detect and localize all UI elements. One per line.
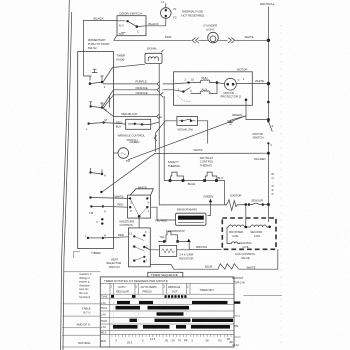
wire neutral vertical bus bbox=[267, 7, 269, 205]
hi-limit thermostat zigzags bbox=[218, 264, 239, 270]
wire moisture to heat selector bbox=[138, 218, 140, 228]
wire white motor to neutral bbox=[252, 83, 268, 85]
wire to signal from start contact bbox=[103, 64, 145, 82]
wire white diagonal to motor switch line bbox=[102, 153, 268, 192]
door switch contacts bbox=[117, 20, 146, 36]
right edge small dashes bbox=[234, 316, 241, 337]
signal buzzer box bbox=[145, 47, 164, 64]
switch motor-switch on neutral bus bbox=[253, 101, 274, 147]
heat selector switch box bbox=[106, 228, 150, 269]
wire signal-sw right to thermo column bbox=[197, 121, 207, 144]
timer contact row3 A bbox=[89, 168, 106, 178]
timer contact M row1 bbox=[89, 102, 107, 112]
connector chevrons pink line right bbox=[228, 38, 235, 44]
timer box outline bbox=[78, 52, 114, 249]
wire green motor protector to ground bbox=[232, 99, 269, 120]
motor centrifugal actuator dashed arc bbox=[178, 96, 191, 102]
row TM-B bars bbox=[111, 295, 187, 298]
wire orange 2 bbox=[103, 95, 164, 181]
wire black from push-start to door switch bbox=[84, 20, 118, 73]
wire red-black to vertical bus bbox=[102, 108, 162, 118]
row L-M bars bbox=[117, 301, 240, 304]
wire signal-sw left diagonal bbox=[156, 121, 177, 152]
wire green timer-motor to motor ground bbox=[128, 116, 246, 160]
wire black door switch to thermal fuse bbox=[146, 18, 166, 26]
chart header labels bbox=[111, 285, 215, 294]
row TM-A bars bbox=[116, 306, 190, 310]
booster coil bbox=[227, 225, 251, 238]
wire brown thermostat to gas valve bbox=[189, 242, 221, 250]
wire red-blk vertical bus down to burner bbox=[159, 84, 227, 205]
timer contact row4 white to moisture bbox=[89, 195, 130, 199]
moisture control box bbox=[120, 185, 154, 227]
wire timer to wrinkle switch bbox=[104, 123, 126, 125]
motor aux winding bbox=[178, 81, 219, 93]
chart label column divider bbox=[109, 294, 111, 347]
junction neutral-white-lower bbox=[267, 152, 270, 155]
timer contact pair V bbox=[96, 218, 104, 225]
wire yel-red moisture to sensor bars bbox=[151, 207, 176, 220]
motor run winding bbox=[185, 76, 218, 84]
wire orange 1 bbox=[103, 90, 183, 106]
timer contact row5 TM-A red to moisture bbox=[89, 202, 128, 215]
wire signal down to purple bbox=[158, 64, 160, 84]
scan artifact dotted line bbox=[280, 25, 282, 345]
green ground arrow near sensor bars bbox=[203, 195, 213, 216]
wire sensor line into gas valve coils bbox=[246, 205, 269, 227]
wire wrinkle switch to bus bbox=[151, 122, 160, 124]
holding coil bbox=[227, 227, 252, 249]
resistor 2.4k box bbox=[159, 245, 193, 260]
gas control valve dashed box bbox=[222, 218, 276, 249]
ignitor bbox=[227, 193, 246, 210]
ground chassis symbol bbox=[227, 120, 233, 124]
wire stub above contact M bbox=[109, 96, 111, 108]
wire heat selector to resistor bbox=[150, 249, 189, 251]
connector chevron purple bbox=[157, 81, 160, 86]
operating thermostat bbox=[158, 229, 189, 243]
chart header column dividers bbox=[110, 283, 190, 294]
page edge crease line right bbox=[63, 12, 72, 350]
lamp cylinder light bbox=[203, 24, 218, 43]
stray underline right of chart bbox=[243, 294, 282, 296]
thermo rail wire bbox=[164, 181, 224, 205]
chart row labels bbox=[101, 295, 108, 343]
faint column gridlines in rows bbox=[114, 294, 191, 334]
page edge crease line left bbox=[61, 0, 70, 350]
timer contact row6 L-H bbox=[85, 233, 106, 239]
connector chevrons pink line left bbox=[192, 38, 199, 44]
junction neutral-pink bbox=[267, 39, 270, 42]
thermal fuse F1 bbox=[161, 0, 205, 20]
timer motor TM bbox=[114, 148, 131, 163]
wire red timer to heat selector bbox=[103, 237, 128, 238]
switch momentary push-to-start bbox=[84, 69, 106, 89]
signal interlock switch box bbox=[177, 116, 198, 131]
wire blue bottom bbox=[150, 265, 218, 270]
chart time scale numbers bbox=[116, 337, 239, 347]
sensor bars bbox=[176, 208, 207, 226]
chart row grid lines bbox=[100, 294, 234, 334]
chart bottom tick marks bbox=[112, 334, 231, 337]
air inlet control thermostat bbox=[200, 156, 218, 182]
row TM-N bars bbox=[130, 319, 234, 322]
caution note text block bbox=[79, 272, 92, 299]
junction neutral-green bbox=[267, 118, 270, 121]
wire purple bbox=[103, 83, 189, 84]
door switch S1 box bbox=[117, 16, 146, 36]
motor protector bbox=[217, 77, 252, 99]
timer contact L-M row2 bbox=[87, 118, 123, 131]
junction neutral-motor-white bbox=[267, 82, 270, 85]
chart outer box bbox=[100, 277, 234, 347]
row L-M3 bars bbox=[113, 325, 230, 329]
timer sequence header box bbox=[148, 272, 183, 277]
safety thermostat bbox=[168, 160, 185, 182]
leader corner below timer box bbox=[74, 252, 81, 259]
second coil bbox=[250, 225, 271, 238]
flame sensor bbox=[245, 198, 270, 206]
wire white to gas valve corner bbox=[239, 249, 278, 269]
wire pink cylinder light line bbox=[114, 36, 269, 41]
row L-M2 bar bbox=[157, 312, 184, 315]
left gas table lines bbox=[62, 272, 101, 347]
wrinkle control switch box bbox=[118, 119, 151, 142]
motor box outline bbox=[174, 72, 253, 106]
junction arrow on brown wire bbox=[187, 239, 191, 242]
